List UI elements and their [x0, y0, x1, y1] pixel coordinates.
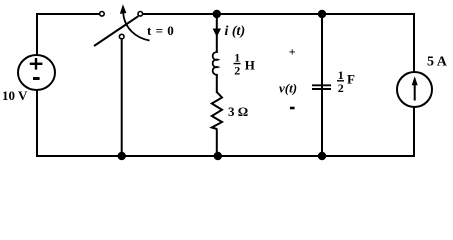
- svg-text:1: 1: [338, 68, 344, 82]
- current source I1 circle: [397, 72, 432, 107]
- wire top-left rail: [37, 13, 100, 15]
- wire top-right rail: [143, 13, 416, 15]
- svg-text:3 Ω: 3 Ω: [228, 104, 248, 119]
- junction capacitor-bottom: [318, 152, 326, 160]
- label minus v(t): [290, 107, 295, 110]
- svg-text:F: F: [347, 72, 355, 87]
- junction switch-bottom: [118, 152, 126, 160]
- wire capacitor branch: [321, 14, 323, 156]
- wire switch to bottom rail: [121, 38, 123, 156]
- svg-text:1: 1: [234, 51, 240, 65]
- wire left branch upper: [36, 13, 38, 56]
- svg-text:+: +: [289, 44, 296, 58]
- switch motion arc arrow: [123, 13, 149, 41]
- resistor R1 zigzag: [212, 92, 222, 129]
- current arrow i(t): [213, 29, 221, 38]
- switch bottom contact: [119, 34, 124, 39]
- switch right contact: [138, 12, 143, 17]
- wire resistor to bottom rail: [216, 129, 218, 157]
- switch left contact: [100, 12, 105, 17]
- wire middle branch upper: [216, 14, 218, 53]
- wire bottom rail: [36, 155, 415, 157]
- svg-text:2: 2: [338, 81, 344, 95]
- svg-text:H: H: [245, 58, 255, 73]
- voltage source plus sign: [30, 58, 43, 70]
- wire inductor to resistor: [216, 75, 218, 94]
- inductor L1 coil: [213, 52, 218, 75]
- wire right branch upper: [413, 13, 415, 73]
- svg-text:v(t): v(t): [279, 81, 297, 96]
- current source arrow: [414, 83, 416, 101]
- junction middle-top: [213, 10, 221, 18]
- voltage source V1 circle: [18, 55, 55, 90]
- svg-text:10 V: 10 V: [2, 88, 28, 103]
- junction middle-bottom: [214, 152, 222, 160]
- voltage source minus sign: [33, 77, 40, 80]
- label 1/2 F: [337, 68, 355, 95]
- junction capacitor-top: [318, 10, 326, 18]
- switch blade: [94, 16, 138, 46]
- label 1/2 H: [234, 51, 255, 78]
- svg-text:i (t): i (t): [225, 24, 246, 39]
- wire left branch lower: [36, 90, 38, 158]
- svg-text:5 A: 5 A: [427, 55, 448, 70]
- svg-text:2: 2: [234, 64, 240, 78]
- wire right branch lower: [413, 107, 415, 158]
- svg-text:t = 0: t = 0: [147, 23, 174, 38]
- capacitor C1 plates: [312, 85, 331, 89]
